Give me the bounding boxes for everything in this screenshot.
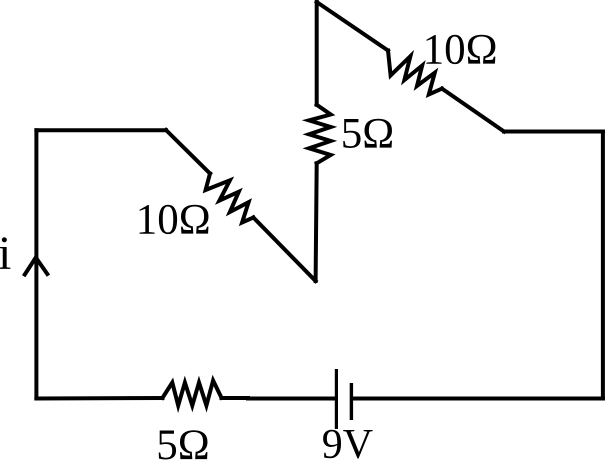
- resistor R2 5Ω (middle vertical zigzag): [309, 105, 331, 164]
- wire: upper segment of right diagonal (from top peak): [317, 2, 388, 51]
- svg-text:10Ω: 10Ω: [423, 26, 498, 73]
- resistor R3 10Ω (middle diagonal zigzag): [206, 174, 254, 223]
- battery V1 long plate (positive): [335, 369, 338, 429]
- svg-text:i: i: [0, 227, 11, 280]
- resistor R1 10Ω (top-right diagonal zigzag): [388, 51, 442, 95]
- wire: bottom left (left wall to resistor): [36, 396, 162, 401]
- wire: bottom right (battery to right wall): [353, 397, 603, 401]
- svg-text:5Ω: 5Ω: [156, 422, 209, 462]
- wire: top-right horizontal: [504, 130, 603, 134]
- wire: right vertical: [601, 132, 605, 399]
- wire: middle vertical lower: [316, 163, 317, 281]
- wire: middle vertical upper (from top peak): [315, 2, 319, 105]
- svg-text:5Ω: 5Ω: [341, 110, 394, 157]
- wire: top-left horizontal: [36, 128, 166, 132]
- wire: left vertical: [34, 130, 38, 398]
- svg-text:10Ω: 10Ω: [136, 196, 211, 243]
- wire: lower segment of right diagonal: [442, 89, 504, 132]
- current arrow (on left wire, pointing up): [25, 258, 48, 275]
- battery V1 short plate (negative): [350, 383, 353, 420]
- wire: upper segment of left diagonal: [166, 130, 210, 174]
- resistor R4 5Ω (bottom horizontal zigzag): [163, 381, 222, 406]
- wire: lower segment of left diagonal: [253, 218, 315, 282]
- wire: bottom middle (resistor to battery): [222, 396, 336, 401]
- svg-text:9V: 9V: [322, 422, 373, 462]
